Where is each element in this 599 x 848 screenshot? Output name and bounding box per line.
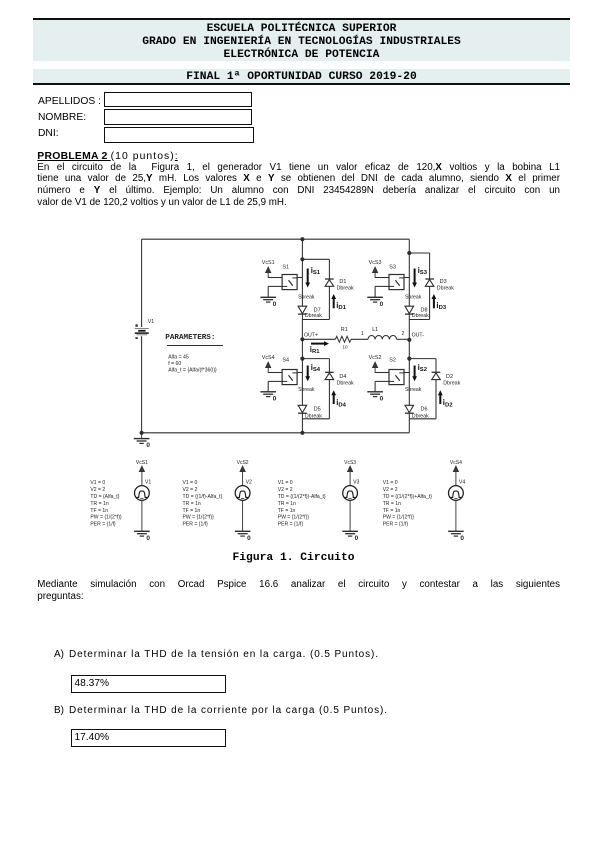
current arrow iD4	[333, 394, 335, 404]
svg-text:Dbreak: Dbreak	[437, 286, 454, 292]
svg-text:V1 = 0: V1 = 0	[278, 480, 293, 486]
diode D8	[405, 306, 414, 313]
net VcS4	[267, 367, 269, 373]
svg-text:L1: L1	[372, 327, 378, 333]
svg-text:f = 60: f = 60	[168, 361, 181, 367]
svg-text:Alfa_t = {Alfa/(f*360)}: Alfa_t = {Alfa/(f*360)}	[168, 367, 217, 373]
net VcS3	[374, 272, 376, 278]
svg-text:TF = 1n: TF = 1n	[278, 508, 296, 514]
svg-text:iD4: iD4	[336, 398, 346, 408]
svg-text:D2: D2	[446, 374, 453, 380]
svg-text:D1: D1	[339, 279, 346, 285]
ground under VcS3	[374, 286, 376, 297]
svg-text:1: 1	[361, 331, 364, 337]
wire L1 to OUT-	[397, 338, 410, 340]
node top of S1 branch	[300, 237, 304, 241]
node OUT-	[407, 338, 411, 342]
ground under V1	[141, 500, 143, 531]
paragraph	[37, 162, 560, 210]
wire S3 branch vertical	[408, 253, 410, 320]
svg-text:PW = {1/(2*f)}: PW = {1/(2*f)}	[183, 515, 215, 521]
wire OUT+ to R1	[302, 338, 335, 340]
svg-text:PW = {1/(2*f)}: PW = {1/(2*f)}	[383, 515, 415, 521]
wire node to D3 branch	[409, 252, 429, 254]
svg-text:TD = {Alfa_t}: TD = {Alfa_t}	[90, 494, 119, 500]
diode D3	[425, 278, 434, 280]
wire right leg mid	[408, 320, 410, 359]
svg-text:Alfa = 45: Alfa = 45	[168, 354, 189, 360]
svg-text:VcS2: VcS2	[237, 460, 249, 466]
svg-text:Dbreak: Dbreak	[412, 313, 429, 319]
svg-text:D3: D3	[440, 279, 447, 285]
junction node S2 top	[407, 357, 411, 361]
net VcS4	[455, 472, 457, 486]
svg-text:10: 10	[342, 344, 348, 349]
figura	[0, 228, 599, 563]
wire S3 cell bottom	[409, 319, 429, 321]
svg-text:PER = {1/f}: PER = {1/f}	[183, 522, 209, 528]
wire D3 branch vertical	[429, 253, 431, 320]
svg-text:PER = {1/f}: PER = {1/f}	[278, 522, 304, 528]
diode D5	[298, 405, 307, 412]
diode D6	[405, 405, 414, 412]
svg-text:PW = {1/(2*f)}: PW = {1/(2*f)}	[90, 515, 122, 521]
svg-text:0: 0	[273, 395, 277, 402]
wire top rail	[142, 238, 410, 240]
svg-text:S2: S2	[389, 357, 396, 363]
current arrow iD3	[433, 298, 435, 308]
voltage source V4 (VcS4)	[449, 486, 464, 501]
svg-text:iR1: iR1	[310, 345, 320, 355]
svg-text:PARAMETERS:: PARAMETERS:	[165, 334, 215, 342]
current arrow iD1	[333, 298, 335, 308]
header box	[33, 18, 570, 85]
mediante paragraph	[37, 579, 560, 603]
svg-text:iD1: iD1	[336, 301, 346, 311]
junction node S3 top	[407, 251, 411, 255]
svg-text:2: 2	[402, 331, 405, 337]
wire S4 to bottom rail	[301, 419, 303, 433]
svg-text:S4: S4	[282, 357, 289, 363]
svg-text:0: 0	[273, 301, 277, 308]
svg-text:V2 = 2: V2 = 2	[278, 487, 293, 493]
diode D7	[298, 306, 307, 313]
switch S2	[389, 370, 404, 385]
net VcS3	[349, 472, 351, 486]
svg-text:S1: S1	[282, 264, 289, 270]
form fields	[38, 96, 101, 107]
svg-text:0: 0	[146, 442, 150, 449]
svg-text:OUT-: OUT-	[412, 333, 425, 339]
svg-text:iS3: iS3	[418, 266, 428, 276]
svg-text:0: 0	[380, 395, 384, 402]
svg-text:0: 0	[146, 535, 150, 542]
svg-text:D5: D5	[314, 406, 321, 412]
voltage source V2 (VcS2)	[235, 486, 250, 501]
wire S1 to OUT+	[301, 320, 303, 340]
switch S1	[282, 275, 297, 290]
svg-text:V4: V4	[459, 480, 465, 486]
wire D1 branch vertical	[328, 259, 330, 319]
net VcS2	[242, 472, 244, 486]
wire S2 cell bottom	[409, 418, 436, 420]
wire D2 branch vertical	[435, 359, 437, 419]
svg-text:0: 0	[247, 535, 251, 542]
svg-text:TR = 1n: TR = 1n	[383, 501, 401, 507]
junction node S4 top	[300, 357, 304, 361]
svg-text:S3: S3	[389, 264, 396, 270]
ground under VcS2	[374, 381, 376, 391]
wire D4 branch vertical	[328, 359, 330, 419]
current arrow iS3	[414, 269, 416, 284]
svg-text:Sbreak: Sbreak	[298, 387, 315, 393]
ground under VcS4	[267, 381, 269, 391]
ground main (left)	[140, 431, 144, 435]
svg-text:V1 = 0: V1 = 0	[383, 480, 398, 486]
current arrow iS1	[307, 269, 309, 284]
svg-text:Sbreak: Sbreak	[298, 294, 315, 300]
current arrow iS2	[414, 366, 416, 378]
svg-text:V1 = 0: V1 = 0	[183, 480, 198, 486]
svg-text:iD2: iD2	[443, 398, 453, 408]
wire node to D2 branch	[409, 358, 436, 360]
junction node S1 top	[300, 257, 304, 261]
svg-text:OUT+: OUT+	[304, 332, 318, 338]
svg-text:V3: V3	[353, 480, 359, 486]
svg-text:iS4: iS4	[311, 363, 321, 373]
wire right leg top	[408, 239, 410, 253]
diode D1	[325, 278, 334, 280]
svg-text:V1: V1	[145, 480, 151, 486]
svg-text:TR = 1n: TR = 1n	[90, 501, 108, 507]
svg-text:VcS1: VcS1	[136, 460, 148, 466]
switch S3	[389, 275, 404, 290]
svg-text:V2 = 2: V2 = 2	[183, 487, 198, 493]
svg-text:VcS4: VcS4	[450, 460, 462, 466]
svg-text:0: 0	[460, 535, 464, 542]
svg-text:0: 0	[355, 535, 359, 542]
net VcS1	[141, 472, 143, 486]
wire left leg mid	[301, 339, 303, 358]
wire R1 to L1	[351, 338, 368, 340]
svg-text:0: 0	[380, 301, 384, 308]
wire S4 cell bottom	[302, 418, 329, 420]
wire S4 branch vertical	[301, 359, 303, 419]
voltage source V1 (VcS1)	[135, 486, 150, 501]
resistor R1	[335, 336, 351, 342]
svg-text:PW = {1/(2*f)}: PW = {1/(2*f)}	[278, 515, 310, 521]
net VcS1	[267, 272, 269, 278]
svg-text:Dbreak: Dbreak	[305, 413, 322, 419]
svg-text:D6: D6	[421, 406, 428, 412]
switch S4	[282, 370, 297, 385]
wire node to D4 branch	[302, 358, 329, 360]
svg-text:VcS2: VcS2	[369, 355, 382, 361]
node OUT+	[300, 337, 304, 341]
wire bottom rail	[142, 432, 410, 434]
svg-text:TF = 1n: TF = 1n	[90, 508, 108, 514]
svg-text:PER = {1/f}: PER = {1/f}	[90, 522, 116, 528]
svg-text:V2 = 2: V2 = 2	[90, 487, 105, 493]
ground under VcS1	[267, 286, 269, 297]
question A	[54, 649, 379, 660]
inductor L1	[368, 336, 397, 340]
wire S1 branch vertical	[301, 259, 303, 319]
svg-text:TR = 1n: TR = 1n	[183, 501, 201, 507]
voltage source V3 (VcS3)	[343, 486, 358, 501]
svg-text:R1: R1	[341, 327, 348, 333]
problema heading	[37, 151, 177, 162]
svg-text:V2 = 2: V2 = 2	[383, 487, 398, 493]
wire S1 cell bottom	[302, 319, 329, 321]
diode D2	[432, 371, 441, 373]
wire S2 to bottom rail	[408, 419, 410, 433]
svg-text:Sbreak: Sbreak	[405, 294, 422, 300]
svg-text:D4: D4	[339, 374, 346, 380]
current arrow iD2	[439, 394, 441, 404]
svg-text:Sbreak: Sbreak	[405, 387, 422, 393]
svg-text:VcS1: VcS1	[262, 260, 275, 266]
ground under V4	[455, 500, 457, 531]
ground under V2	[242, 500, 244, 531]
svg-text:TD = {(1/f)-Alfa_t}: TD = {(1/f)-Alfa_t}	[183, 494, 223, 500]
current arrow iR1	[311, 343, 325, 345]
svg-text:VcS4: VcS4	[262, 355, 275, 361]
wire left rail	[141, 239, 143, 327]
svg-text:PER = {1/f}: PER = {1/f}	[383, 522, 409, 528]
svg-text:Dbreak: Dbreak	[412, 413, 429, 419]
svg-text:Dbreak: Dbreak	[443, 380, 460, 386]
source V1	[135, 328, 149, 330]
net VcS2	[374, 367, 376, 373]
svg-text:V1: V1	[148, 319, 154, 325]
current arrow iS4	[307, 366, 309, 378]
svg-text:iS2: iS2	[418, 363, 428, 373]
svg-text:TF = 1n: TF = 1n	[183, 508, 201, 514]
wire S2 branch vertical	[408, 359, 410, 419]
svg-text:TF = 1n: TF = 1n	[383, 508, 401, 514]
svg-text:TR = 1n: TR = 1n	[278, 501, 296, 507]
svg-text:VcS3: VcS3	[344, 460, 356, 466]
diode D4	[325, 371, 334, 373]
question B	[54, 705, 388, 716]
svg-text:Dbreak: Dbreak	[305, 313, 322, 319]
svg-text:TD = {(1/(2*f))+Alfa_t}: TD = {(1/(2*f))+Alfa_t}	[383, 494, 433, 500]
svg-text:VcS3: VcS3	[369, 260, 382, 266]
svg-text:iS1: iS1	[311, 266, 321, 276]
svg-text:Dbreak: Dbreak	[337, 286, 354, 292]
svg-text:TD = {(1/(2*f))-Alfa_t}: TD = {(1/(2*f))-Alfa_t}	[278, 494, 326, 500]
wire node to D1 branch	[302, 258, 329, 260]
svg-text:V1 = 0: V1 = 0	[90, 480, 105, 486]
svg-text:V2: V2	[246, 480, 252, 486]
svg-text:Dbreak: Dbreak	[337, 380, 354, 386]
ground under V3	[349, 500, 351, 531]
svg-text:iD3: iD3	[436, 301, 446, 311]
